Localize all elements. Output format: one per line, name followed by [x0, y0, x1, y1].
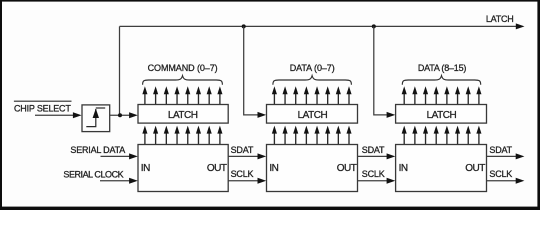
arrowhead SCLK into stage 2 [258, 178, 267, 184]
svg-text:LATCH: LATCH [486, 14, 514, 24]
arrowhead SCLK into stage 3 [387, 178, 396, 184]
arrowhead SDAT into stage 3 [387, 153, 396, 159]
latch 3 output bus arrows (8) [402, 86, 482, 104]
brace over latch 2 outputs [273, 76, 352, 85]
arrowhead into latch 2 [258, 112, 267, 118]
wire: serial clock input [100, 180, 130, 182]
latch U3 (data low latch) [267, 105, 358, 124]
wire: drop to latch 2 [244, 26, 258, 115]
arrowhead SDAT output [516, 153, 525, 159]
shift register U7 (stage 3) [396, 145, 487, 192]
arrowhead serial data into stage 1 [129, 153, 138, 159]
shift register U6 (stage 2) [267, 145, 358, 192]
svg-text:SDAT: SDAT [489, 145, 512, 155]
latch 3 input arrows from shift register (8) [402, 126, 482, 145]
node junction dot after schmitt buffer [118, 113, 122, 117]
arrowhead into schmitt buffer [73, 112, 82, 118]
wire: SCLK stage2 to stage3 [358, 180, 388, 182]
latch U2 (command latch) [138, 105, 228, 124]
svg-text:SERIAL DATA: SERIAL DATA [70, 145, 125, 155]
svg-text:SCLK: SCLK [362, 169, 385, 179]
svg-text:SCLK: SCLK [489, 169, 512, 179]
shift register U5 (stage 1) [138, 145, 228, 192]
wire: SCLK stage1 to stage2 [228, 180, 258, 182]
wire: SDAT stage2 to stage3 [358, 155, 388, 157]
latch 2 output bus arrows (8) [272, 86, 352, 104]
svg-text:OUT: OUT [465, 163, 485, 174]
svg-text:SDAT: SDAT [231, 145, 254, 155]
schmitt trigger buffer U1 [82, 105, 110, 132]
arrowhead into latch 3 [387, 112, 396, 118]
wire: serial data input [101, 155, 130, 157]
wire: drop to latch 3 [374, 26, 387, 115]
arrowhead SDAT into stage 2 [258, 153, 267, 159]
svg-text:IN: IN [141, 163, 150, 174]
arrowhead serial clock into stage 1 [129, 178, 138, 184]
label CHIP SELECT (active low overline) [14, 100, 72, 102]
latch 1 output bus arrows (8) [142, 86, 222, 104]
wire: top LATCH line [120, 25, 518, 27]
svg-text:SCLK: SCLK [231, 169, 254, 179]
svg-text:LATCH: LATCH [168, 110, 198, 121]
arrowhead: top LATCH line output [516, 23, 525, 29]
svg-text:OUT: OUT [337, 163, 357, 174]
svg-text:SERIAL CLOCK: SERIAL CLOCK [63, 169, 123, 179]
wire: riser from CS junction to top line [119, 26, 121, 115]
svg-text:LATCH: LATCH [427, 110, 457, 121]
wire: SDAT output [487, 155, 517, 157]
latch 2 input arrows from shift register (8) [272, 126, 352, 145]
wire: SCLK output [487, 180, 517, 182]
arrowhead into latch 1 [129, 112, 138, 118]
svg-text:DATA (8–15): DATA (8–15) [418, 63, 466, 73]
svg-text:SDAT: SDAT [362, 145, 385, 155]
latch U4 (data high latch) [396, 105, 487, 124]
wire: SDAT stage1 to stage2 [228, 155, 258, 157]
svg-text:DATA (0–7): DATA (0–7) [290, 63, 335, 73]
svg-text:IN: IN [399, 163, 408, 174]
wire: chip select into schmitt buffer [35, 114, 74, 116]
arrowhead SCLK output [516, 178, 525, 184]
node junction dot on top line (drop to latch 2) [242, 24, 246, 28]
wire: schmitt output to junction [110, 114, 130, 116]
svg-text:LATCH: LATCH [298, 110, 328, 121]
svg-text:OUT: OUT [207, 163, 227, 174]
node junction dot on top line (drop to latch 3) [372, 24, 376, 28]
brace over latch 3 outputs [402, 76, 480, 85]
svg-text:COMMAND (0–7): COMMAND (0–7) [148, 63, 218, 73]
svg-text:IN: IN [269, 163, 278, 174]
latch 1 input arrows from shift register (8) [142, 126, 222, 145]
brace over latch 1 outputs [143, 76, 223, 85]
svg-text:CHIP SELECT: CHIP SELECT [14, 103, 71, 113]
